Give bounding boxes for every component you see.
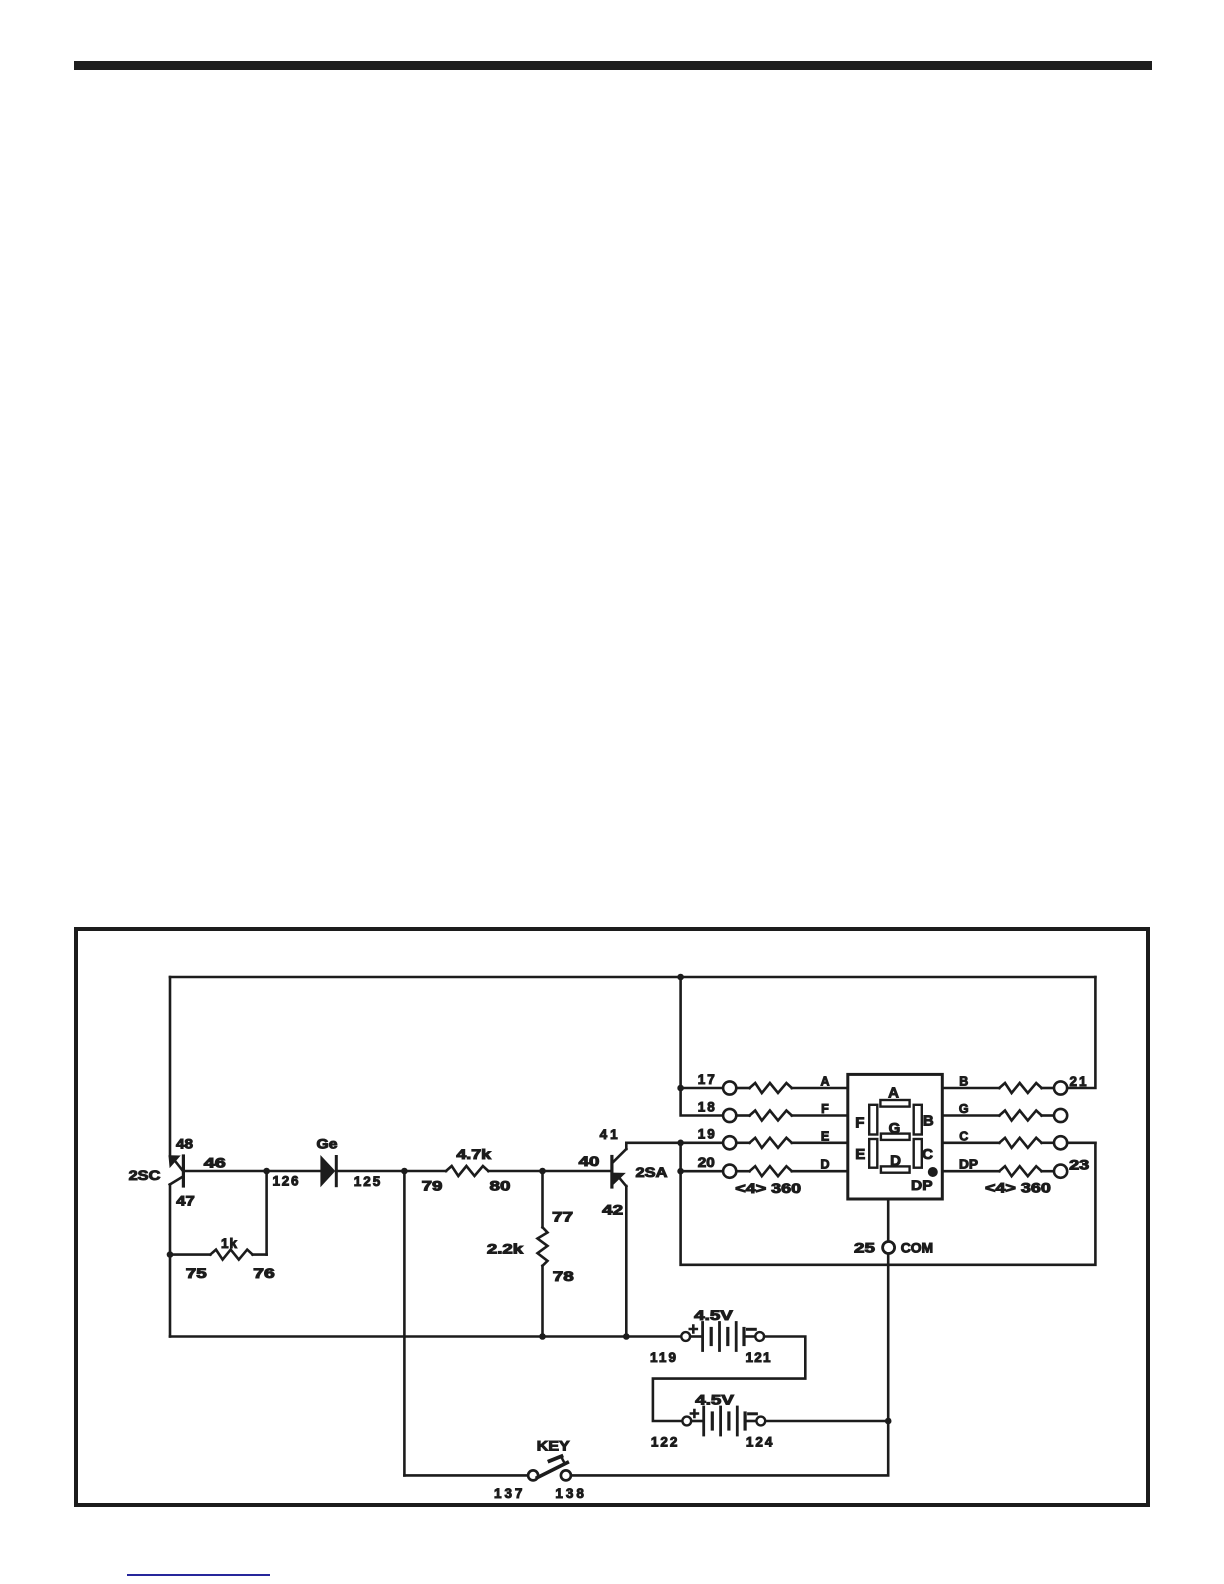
7-segment display U1 box [848, 1074, 943, 1199]
wire base net 46 [185, 1170, 321, 1173]
resistor 360 row C right [999, 1138, 1041, 1148]
wire 2SA collector to node 19 [626, 1143, 680, 1149]
svg-text:B: B [959, 1075, 968, 1089]
wire row C right [944, 1142, 1000, 1145]
node junction 77 top [539, 1168, 546, 1175]
svg-text:2SA: 2SA [636, 1165, 668, 1180]
schematic frame [76, 929, 1148, 1505]
svg-text:122: 122 [651, 1435, 678, 1450]
resistor R 1k [170, 1250, 267, 1260]
svg-text:20: 20 [698, 1155, 715, 1170]
node row 19 junction [677, 1140, 684, 1147]
svg-text:A: A [820, 1075, 829, 1089]
wire row G right [944, 1114, 1000, 1117]
resistor 360 row 17 [736, 1087, 749, 1090]
wire row 17 [681, 1087, 724, 1090]
svg-text:F: F [821, 1102, 829, 1116]
battery B2 4.5V [682, 1417, 691, 1426]
segment DP dot [928, 1167, 938, 1177]
svg-text:137: 137 [494, 1486, 523, 1501]
svg-text:80: 80 [490, 1179, 511, 1194]
wire row 20 [681, 1170, 724, 1173]
segment A [880, 1100, 909, 1107]
wire emitter ground rail [170, 1335, 681, 1338]
svg-text:79: 79 [422, 1179, 443, 1194]
wire branch from node 79 down to key [403, 1171, 406, 1475]
node row 17 junction [677, 1085, 684, 1092]
wire vertical bus lower (rows 19-20 to bottom rail) [681, 1143, 1096, 1265]
wire display common [887, 1200, 890, 1242]
svg-text:4.5V: 4.5V [694, 1308, 733, 1323]
wire diode to resistor [338, 1170, 446, 1173]
switch KEY [528, 1456, 571, 1480]
transistor Q 2SC [169, 1156, 183, 1186]
svg-text:75: 75 [186, 1266, 208, 1281]
terminal 17 [723, 1081, 736, 1094]
wire vertical bus upper (rows 17-18) [681, 977, 724, 1116]
svg-text:E: E [821, 1129, 829, 1143]
svg-text:25: 25 [854, 1240, 875, 1256]
svg-text:A: A [888, 1085, 899, 1102]
node top rail junction [677, 974, 684, 981]
terminal 20 [723, 1165, 736, 1178]
svg-text:125: 125 [354, 1174, 381, 1189]
wire row 19 [681, 1142, 724, 1145]
svg-text:B: B [923, 1113, 934, 1130]
segment B [914, 1105, 922, 1135]
svg-text:4.5V: 4.5V [695, 1393, 734, 1408]
wire key to left branch [404, 1474, 528, 1477]
resistor R 2.2k vertical [538, 1171, 548, 1337]
svg-text:40: 40 [579, 1154, 600, 1169]
segment E [869, 1139, 877, 1168]
wire top supply rail [170, 976, 1095, 979]
terminal row B right [1054, 1081, 1067, 1094]
wire row DP right [944, 1170, 1000, 1173]
wire COM down to battery junction [887, 1254, 890, 1422]
battery B1 4.5V [681, 1332, 690, 1341]
svg-text:124: 124 [746, 1435, 773, 1450]
svg-text:E: E [855, 1146, 865, 1163]
svg-text:G: G [959, 1102, 969, 1116]
svg-text:F: F [855, 1114, 864, 1131]
svg-text:DP: DP [911, 1177, 933, 1193]
svg-text:19: 19 [698, 1127, 715, 1142]
terminal row C right [1054, 1136, 1067, 1149]
wire COM node down to key [571, 1421, 888, 1475]
svg-text:Ge: Ge [317, 1137, 339, 1152]
transistor Q 2SA [612, 1149, 626, 1187]
svg-text:23: 23 [1069, 1158, 1090, 1173]
terminal row DP right [1054, 1165, 1067, 1178]
wire 2SC emitter vertical [169, 1185, 172, 1337]
svg-text:C: C [922, 1146, 933, 1163]
svg-text:KEY: KEY [537, 1439, 570, 1454]
terminal row G right [1054, 1109, 1067, 1122]
svg-text:121: 121 [746, 1350, 771, 1365]
diode Ge 125 [321, 1157, 336, 1186]
resistor R 4.7k [446, 1166, 488, 1176]
page top rule [74, 61, 1152, 70]
node junction 75 [167, 1251, 174, 1258]
node junction 126 [263, 1168, 270, 1175]
terminal 25 COM [883, 1242, 895, 1254]
terminal 18 [723, 1109, 736, 1122]
svg-text:47: 47 [176, 1194, 195, 1209]
svg-text:<4> 360: <4> 360 [735, 1181, 801, 1196]
svg-text:G: G [889, 1120, 901, 1137]
svg-text:<4> 360: <4> 360 [985, 1181, 1051, 1196]
wire terminal 21 to top rail [1067, 977, 1095, 1088]
wire battery B2 to COM node [766, 1420, 889, 1423]
resistor 360 row B right [999, 1083, 1041, 1093]
svg-text:46: 46 [204, 1156, 227, 1171]
svg-text:2SC: 2SC [129, 1168, 161, 1183]
wire battery B1 to battery B2 [653, 1337, 805, 1422]
wire row B right [944, 1087, 1000, 1090]
node junction at 79 branch [401, 1168, 408, 1175]
segment D [881, 1166, 910, 1172]
svg-text:17: 17 [698, 1072, 715, 1087]
wire resistor to node 77 [488, 1170, 610, 1173]
svg-text:1k: 1k [221, 1236, 237, 1251]
svg-text:18: 18 [698, 1099, 715, 1114]
svg-text:C: C [959, 1129, 968, 1143]
svg-text:119: 119 [650, 1350, 676, 1365]
segment C [914, 1139, 922, 1168]
node 2.2k bottom junction [539, 1333, 546, 1340]
svg-text:77: 77 [552, 1210, 573, 1225]
svg-text:138: 138 [555, 1486, 584, 1501]
node row 20 junction [677, 1168, 684, 1175]
wire 2SA emitter vertical [625, 1186, 628, 1337]
hyperlink underline [127, 1574, 270, 1576]
resistor 360 row 20 [736, 1170, 749, 1173]
resistor 360 row 18 [736, 1114, 749, 1117]
resistor 360 row DP right [999, 1166, 1041, 1176]
svg-text:COM: COM [901, 1240, 933, 1256]
svg-text:48: 48 [176, 1137, 194, 1152]
segment F [869, 1105, 877, 1135]
segment G [881, 1134, 910, 1140]
svg-text:126: 126 [273, 1174, 299, 1189]
svg-text:2.2k: 2.2k [487, 1242, 524, 1257]
resistor 360 row G right [999, 1111, 1041, 1121]
svg-text:42: 42 [602, 1203, 623, 1218]
wire terminal C row to bottom rail [1067, 1142, 1095, 1145]
wire left vertical collector of 2SC [169, 977, 172, 1156]
svg-text:78: 78 [553, 1269, 575, 1284]
node 2SA emitter junction [623, 1333, 630, 1340]
node battery B2 COM junction [885, 1418, 892, 1425]
svg-text:D: D [890, 1152, 901, 1169]
svg-text:D: D [820, 1158, 829, 1172]
wire 1k branch vertical from node 126 [265, 1171, 268, 1255]
svg-text:DP: DP [959, 1158, 978, 1172]
terminal 19 [723, 1136, 736, 1149]
svg-text:4.7k: 4.7k [456, 1147, 491, 1162]
resistor 360 row 19 [736, 1142, 749, 1145]
svg-text:76: 76 [253, 1266, 275, 1281]
svg-text:21: 21 [1070, 1074, 1087, 1089]
